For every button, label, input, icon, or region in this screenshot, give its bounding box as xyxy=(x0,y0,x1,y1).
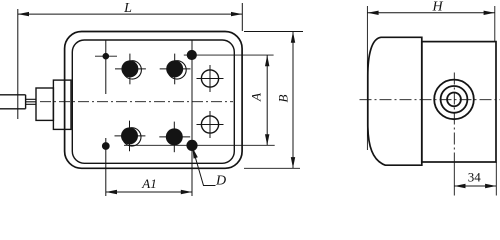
dimension L arrow left xyxy=(18,12,29,16)
dimension B arrow top xyxy=(291,32,295,43)
dimension H line xyxy=(367,12,494,14)
leader line D xyxy=(193,150,215,186)
thread stem xyxy=(26,99,36,104)
dimension L extension line right xyxy=(241,3,243,31)
hole centerline vertical right (x=192) xyxy=(191,41,193,197)
port hole bottom (crosshair circle) xyxy=(197,111,224,138)
coil screw bottom-left xyxy=(115,121,146,152)
dimension H arrow left xyxy=(367,11,378,15)
bushing outer circle xyxy=(434,80,474,120)
coil screw top-right xyxy=(160,54,191,85)
bushing middle circle xyxy=(441,86,468,113)
dimension B top extension xyxy=(244,31,303,33)
hole A1 extension left lower xyxy=(105,138,107,196)
gland block 2 xyxy=(53,80,71,129)
dimension L arrow right xyxy=(231,12,242,16)
svg-text:A1: A1 xyxy=(141,176,156,191)
dimension A1 line xyxy=(106,191,192,193)
dimension A arrow bottom xyxy=(265,134,269,145)
side body dome xyxy=(368,37,422,165)
svg-text:A: A xyxy=(249,93,264,102)
gland block 1 xyxy=(36,88,53,120)
port hole top (crosshair circle) xyxy=(197,65,224,92)
bottom edge line through D hole (A bottom ext) xyxy=(124,144,275,146)
dimension H arrow right xyxy=(484,11,495,15)
small hole bottom-left xyxy=(102,142,110,150)
dimension 34 arrow left xyxy=(454,184,465,188)
centerline left view xyxy=(40,101,233,103)
bushing horizontal centerline xyxy=(360,99,500,101)
svg-text:L: L xyxy=(123,1,132,16)
hole D bottom-right xyxy=(186,140,197,151)
dimension A1 arrow left xyxy=(106,190,117,194)
body outer outline xyxy=(65,32,243,169)
dimension 34 arrow right xyxy=(485,184,496,188)
svg-text:B: B xyxy=(276,94,291,102)
bushing inner circle xyxy=(447,93,461,107)
dimension B arrow bottom xyxy=(291,157,295,168)
dimension B bottom extension xyxy=(244,167,300,169)
coil screw bottom-right xyxy=(159,122,190,153)
dimension 34 line xyxy=(454,185,496,187)
dimension A line xyxy=(266,55,268,145)
dimension A1 arrow right xyxy=(181,190,192,194)
dimension H extension left xyxy=(366,6,368,150)
top extension line (A top) xyxy=(184,54,274,56)
body inner outline xyxy=(72,40,234,163)
small hole top-left xyxy=(95,53,117,60)
dimension 34 extension right xyxy=(495,162,497,196)
dimension L extension line left xyxy=(17,9,19,119)
dimension A arrow top xyxy=(265,55,269,66)
cable stub xyxy=(0,95,26,109)
svg-text:H: H xyxy=(432,0,444,15)
svg-text:34: 34 xyxy=(468,170,482,185)
dimension H extension right xyxy=(494,6,496,41)
dimension L line xyxy=(18,13,243,15)
dimension B line xyxy=(292,32,294,169)
hole centerline vertical left (x=105.8) xyxy=(105,41,107,95)
svg-text:D: D xyxy=(215,174,226,189)
leader D arrowhead xyxy=(192,147,198,158)
bushing vertical centerline / 34 extension xyxy=(453,73,455,159)
side body base rect xyxy=(422,42,496,162)
hole D top-right xyxy=(187,50,197,60)
coil screw top-left xyxy=(115,54,146,85)
